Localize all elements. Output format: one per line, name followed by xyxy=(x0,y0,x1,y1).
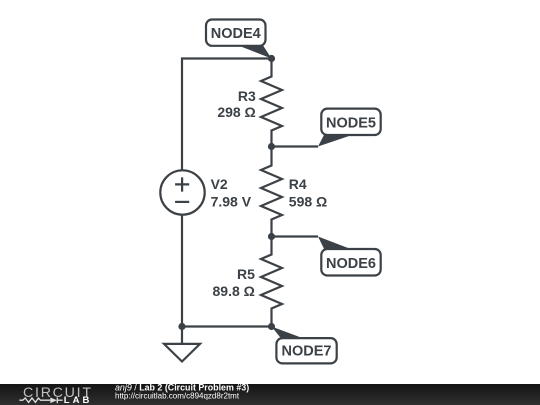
resistor R4 xyxy=(261,147,282,237)
ground xyxy=(164,327,200,362)
voltage source V2 xyxy=(160,170,204,214)
svg-text:R4: R4 xyxy=(289,176,307,192)
wire NODE6 stub xyxy=(272,235,319,237)
svg-text:298 Ω: 298 Ω xyxy=(217,104,255,120)
footer bar xyxy=(0,384,540,405)
node NODE7 label flag xyxy=(272,327,337,364)
svg-text:7.98 V: 7.98 V xyxy=(211,194,252,210)
svg-text:http://circuitlab.com/c894qzd8: http://circuitlab.com/c894qzd8r2tmt xyxy=(115,392,240,401)
CircuitLab logo wordmark xyxy=(23,385,93,405)
svg-text:V2: V2 xyxy=(211,176,228,192)
wire left lower (source bottom to ground node) xyxy=(181,215,183,327)
svg-text:R3: R3 xyxy=(238,88,256,104)
node NODE5 label flag xyxy=(318,109,381,147)
value label V2 7.98 V xyxy=(211,176,252,210)
value label R4 598 ohm xyxy=(289,176,327,210)
node NODE4 label flag xyxy=(206,20,272,59)
wire top (NODE4 to source top) xyxy=(182,59,272,171)
node B junction dot (NODE5) xyxy=(268,143,275,150)
wire NODE5 stub xyxy=(272,145,319,147)
resistor R3 xyxy=(261,59,282,147)
svg-text:NODE5: NODE5 xyxy=(326,115,376,131)
svg-text:NODE6: NODE6 xyxy=(326,256,376,272)
svg-text:NODE4: NODE4 xyxy=(211,26,261,42)
footer title text xyxy=(115,382,249,400)
node E junction dot (ground) xyxy=(178,323,185,330)
node C junction dot (NODE6) xyxy=(268,233,275,240)
svg-text:LAB: LAB xyxy=(64,395,93,405)
wire bottom (ground node to NODE7) xyxy=(182,325,272,327)
node NODE6 label flag xyxy=(318,237,381,276)
node D junction dot (NODE7) xyxy=(268,323,275,330)
svg-text:598 Ω: 598 Ω xyxy=(289,194,327,210)
CircuitLab logo schematic glyph (resistor + diode) xyxy=(19,397,62,403)
node A junction dot (NODE4) xyxy=(268,55,275,62)
svg-text:R5: R5 xyxy=(237,266,255,282)
value label R3 298 ohm xyxy=(217,88,256,120)
svg-text:89.8 Ω: 89.8 Ω xyxy=(213,283,255,299)
svg-text:NODE7: NODE7 xyxy=(282,343,332,359)
value label R5 89.8 ohm xyxy=(213,266,256,299)
resistor R5 xyxy=(261,237,282,327)
